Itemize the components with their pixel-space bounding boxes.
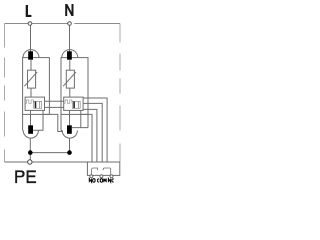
signal tap wire [81, 114, 92, 162]
left frame (dashed) [4, 24, 6, 163]
block terminal 3 [110, 175, 113, 178]
SPD1 indicator box [25, 97, 44, 110]
SPD2 left wall extension [60, 114, 62, 130]
PE rail [5, 161, 121, 163]
signal wire 3 [83, 109, 97, 162]
terminal L [28, 22, 32, 26]
SPD1 top plug arc [23, 50, 39, 58]
right frame (dashed) [119, 24, 121, 163]
SPD1 tap cross-wire to SPD2 arc [43, 114, 63, 131]
wire indicator box to bottom disconnector [30, 110, 32, 125]
SPD1 top disconnector [28, 51, 33, 59]
SPD1 left wall extension [22, 114, 24, 130]
wire varistor to indicator box [30, 88, 32, 97]
wire varistor to indicator box [69, 88, 71, 97]
wire N down to SPD2 [69, 24, 71, 52]
block terminal 2 [100, 175, 103, 178]
wire SPD2 to PE bus [69, 138, 71, 153]
SPD2 right wall extension [87, 114, 89, 127]
PE terminal [28, 160, 32, 164]
junction SPD2 [67, 150, 72, 155]
signal wire 2 [83, 103, 102, 162]
SPD1 sense wire [33, 110, 43, 130]
SPD1 module box [23, 58, 50, 115]
SPD2 top disconnector [67, 51, 72, 59]
SPD2 bottom disconnector [67, 125, 72, 134]
signal wire 1 [83, 98, 107, 162]
terminal label N [65, 4, 73, 16]
wire indicator box to bottom disconnector [69, 110, 71, 125]
varistor RV2 [66, 70, 74, 88]
wire SPD1 to PE bus [29, 138, 31, 160]
SPD2 module box [61, 58, 88, 115]
label COM [97, 179, 106, 183]
terminal label L [26, 5, 32, 17]
SPD2 bottom plug arc [62, 131, 77, 139]
SPD2 top plug arc [62, 50, 78, 58]
PE bus line [30, 152, 69, 154]
changeover contact left hook [92, 168, 98, 175]
PE label [15, 170, 24, 183]
wire L down to SPD1 [30, 24, 32, 52]
SPD1 bottom plug arc [23, 131, 38, 139]
link wires between indicator boxes [45, 101, 64, 107]
top supply line [5, 23, 121, 25]
junction SPD1 [28, 150, 33, 155]
wire to varistor RV1 [30, 60, 32, 70]
wire to varistor RV2 [69, 60, 71, 70]
SPD1 bottom disconnector [28, 125, 33, 134]
terminal N [71, 22, 74, 24]
changeover contact right hook [103, 168, 110, 175]
label NC [108, 179, 113, 183]
SPD2 sense wire [72, 110, 88, 127]
varistor RV1 [28, 70, 36, 88]
SPD2 indicator box [64, 97, 83, 110]
block terminal 1 [90, 175, 93, 178]
label NO [89, 179, 95, 183]
terminal block (remote contact) [87, 162, 119, 175]
